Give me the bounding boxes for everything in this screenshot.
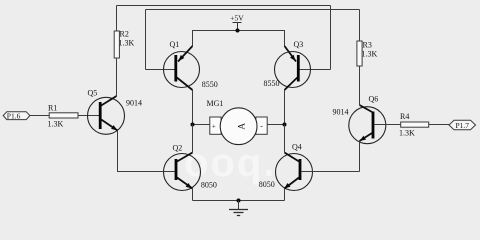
svg-text:A: A: [237, 123, 247, 130]
wire Q6 emitter to Q4 base: [359, 141, 361, 172]
svg-text:Q1: Q1: [170, 40, 180, 49]
svg-text:Q6: Q6: [369, 95, 379, 104]
wire Q6 collector to R3: [359, 66, 361, 105]
svg-text:9014: 9014: [333, 108, 349, 117]
svg-text:+5V: +5V: [230, 14, 244, 23]
wire +5V rail: [193, 31, 285, 47]
svg-text:1.3K: 1.3K: [119, 39, 135, 48]
wire Q2 emitter drop: [192, 189, 194, 201]
svg-text:8550: 8550: [264, 79, 280, 88]
svg-text:1.3K: 1.3K: [362, 50, 378, 59]
svg-text:1.3K: 1.3K: [48, 120, 64, 129]
transistor Q1: [164, 46, 200, 90]
svg-text:P1.6: P1.6: [7, 112, 21, 121]
svg-text:-: -: [260, 122, 263, 131]
wire motor right lead: [267, 124, 284, 126]
svg-text:8050: 8050: [259, 180, 275, 189]
wire Q1 base riser: [145, 10, 147, 70]
svg-text:1.3K: 1.3K: [399, 129, 415, 138]
port P1.7: [449, 120, 476, 130]
transistor Q4: [276, 153, 313, 191]
svg-text:8050: 8050: [201, 181, 217, 190]
wire Q3 base segment: [300, 69, 331, 71]
wire P1.6 to R1: [30, 115, 49, 117]
wire bottom rail: [193, 200, 285, 202]
wire Q5 emitter to Q2 base: [118, 131, 176, 172]
wire Q4 emitter drop: [284, 189, 286, 201]
resistor R3: [357, 41, 378, 67]
svg-text:R2: R2: [120, 30, 129, 39]
port P1.6: [3, 112, 30, 121]
svg-text:Q4: Q4: [292, 143, 302, 152]
transistor Q3: [275, 46, 311, 90]
wire rail B from Q1 base to R3: [146, 9, 360, 11]
svg-text:+: +: [212, 123, 216, 131]
svg-text:Q3: Q3: [294, 40, 304, 49]
transistor Q6: [349, 105, 386, 144]
wire Q1 base segment: [146, 69, 175, 71]
wire Q3 base drop: [330, 6, 332, 70]
wire Q6 base to R4: [374, 124, 401, 126]
ground: [229, 201, 248, 216]
transistor Q5: [88, 96, 125, 134]
wire rail A from R2 to Q3 base drop: [117, 5, 331, 7]
wire R4 to P1.7: [429, 124, 449, 126]
svg-text:Q2: Q2: [173, 144, 183, 153]
wire R1 to Q5 base: [78, 115, 99, 117]
wire R3 top drop: [359, 10, 361, 42]
node motor left: [191, 123, 195, 127]
power +5V symbol: [230, 14, 244, 31]
resistor R4: [399, 112, 429, 138]
watermark: [184, 141, 276, 186]
wire motor left lead: [193, 124, 210, 126]
wire Q4 base segment: [301, 171, 360, 173]
wire Q1 collector drop: [192, 90, 194, 125]
node motor right: [283, 123, 287, 127]
wire Q2 collector riser: [192, 125, 194, 153]
svg-text:MG1: MG1: [207, 99, 224, 108]
wire Q4 collector riser: [284, 125, 286, 153]
svg-text:R4: R4: [400, 112, 409, 121]
svg-text:R1: R1: [48, 104, 57, 113]
motor MG1: [210, 108, 267, 145]
resistor R2: [114, 30, 134, 59]
resistor R1: [48, 104, 79, 129]
transistor Q2: [164, 153, 201, 191]
wire Q5 collector to R2: [116, 58, 118, 96]
svg-text:Q5: Q5: [88, 89, 98, 98]
node ground junction: [237, 199, 241, 203]
svg-text:8550: 8550: [202, 80, 218, 89]
wire R2 top riser: [116, 6, 118, 32]
svg-text:P1.7: P1.7: [456, 121, 470, 130]
svg-text:R3: R3: [363, 41, 372, 50]
node +5V junction: [236, 29, 240, 33]
svg-text:9014: 9014: [126, 99, 142, 108]
wire Q3 collector drop: [284, 90, 286, 125]
